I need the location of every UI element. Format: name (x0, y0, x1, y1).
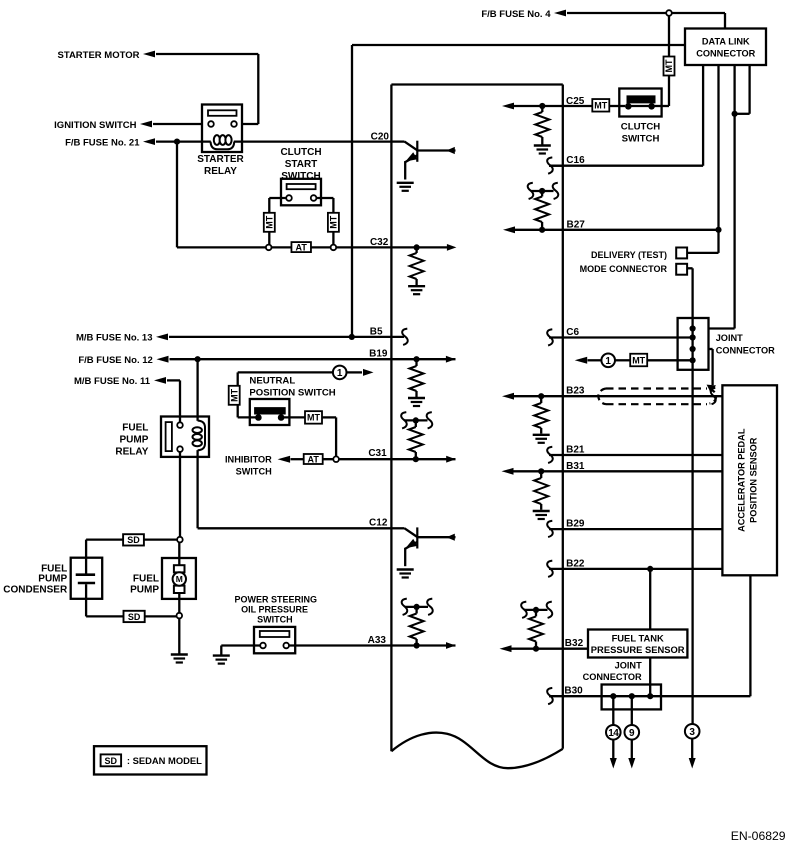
node JC1 pin2 (690, 334, 696, 340)
wire C25 row (513, 105, 625, 107)
wire B29 row (549, 528, 722, 530)
node C25 junction (539, 103, 545, 109)
arrow to IGNITION SWITCH (140, 121, 152, 128)
svg-text:RELAY: RELAY (115, 447, 148, 458)
resistor C31 pull-up (409, 420, 423, 459)
wire DLC pin4 jog (735, 65, 750, 114)
svg-text:C32: C32 (370, 237, 389, 248)
wire B21 row (549, 454, 722, 456)
wire B22 row (549, 568, 722, 570)
resistor B19 pull-down (410, 359, 424, 397)
svg-text:CONNECTOR: CONNECTOR (716, 346, 775, 356)
node DLC pin3-pin4 junction (732, 111, 738, 117)
break B22 (547, 561, 553, 577)
node JC1 pin1 (690, 325, 696, 331)
arrow circled 14 down (610, 740, 617, 769)
svg-text:AT: AT (296, 242, 308, 252)
svg-text:ACCELERATOR PEDAL: ACCELERATOR PEDAL (736, 428, 746, 532)
ground C25 (534, 144, 551, 146)
ground B23 (533, 434, 550, 436)
svg-text:B23: B23 (566, 385, 585, 396)
svg-text:B5: B5 (370, 326, 383, 337)
node inhibitor junction (333, 456, 339, 462)
label JOINT CONNECTOR lower (583, 661, 642, 683)
AT tag inhibitor (304, 454, 323, 464)
svg-text:EN-06829: EN-06829 (731, 829, 786, 843)
node C32 internal (414, 244, 420, 250)
wire C32 internal (391, 246, 447, 248)
MT tag C25 (592, 99, 609, 112)
wire DLC pin2 down to B27 and delivery connector (687, 65, 718, 253)
label CLUTCH SWITCH (621, 121, 661, 144)
wire JC1 down to circled 3 (691, 370, 693, 725)
svg-text:CONNECTOR: CONNECTOR (583, 672, 642, 682)
svg-text:CONNECTOR: CONNECTOR (696, 49, 755, 59)
relay STARTER RELAY (202, 105, 242, 153)
ground PS switch (213, 654, 230, 656)
svg-text:MT: MT (632, 355, 645, 365)
ground fuel pump (171, 653, 188, 655)
rail above C31 with breaks (401, 412, 432, 428)
arrow C25 internal (502, 103, 514, 110)
connector JOINT CONNECTOR upper (678, 318, 709, 370)
svg-text:M/B FUSE No. 13: M/B FUSE No. 13 (76, 333, 153, 344)
node B27 junction on DLC drop (715, 227, 721, 233)
wire ignition switch to relay (153, 123, 202, 125)
wire M/B fuse 11 to fuel pump relay (167, 380, 180, 422)
arrow C32 internal (447, 244, 457, 251)
arrow circled 3 down (689, 739, 696, 769)
break B21 (547, 447, 553, 463)
svg-text:PUMP: PUMP (119, 435, 148, 446)
coil of fuel pump relay (193, 421, 206, 451)
arrow to STARTER MOTOR (143, 51, 155, 58)
node SD branch (177, 537, 183, 543)
wire DLC pin1 to C16 (549, 65, 703, 166)
switch NEUTRAL POSITION SWITCH (250, 399, 290, 425)
svg-text:PUMP: PUMP (130, 584, 159, 595)
SD tag legend (101, 754, 122, 766)
transistor C12 (391, 527, 455, 577)
wire B32 row (510, 648, 588, 650)
svg-text:CONDENSER: CONDENSER (3, 584, 68, 595)
svg-text:JOINT: JOINT (716, 333, 743, 343)
switch CLUTCH START SWITCH (281, 179, 321, 206)
node circled 14 (606, 725, 621, 740)
svg-text:1: 1 (337, 368, 343, 379)
resistor B31 pull-down (534, 471, 548, 510)
label POWER STEERING OIL PRESSURE SWITCH (235, 594, 318, 624)
junction node at x177 (174, 139, 180, 145)
node JC2 pin1 (610, 693, 616, 699)
ECM box outline (391, 85, 562, 769)
wire fuel tank sensor to JC2 (649, 658, 651, 697)
svg-text:MODE CONNECTOR: MODE CONNECTOR (580, 264, 668, 274)
break C6 (547, 329, 553, 345)
node B19 internal (413, 356, 419, 362)
arrow circled 9 down (628, 740, 635, 769)
resistor B27 pull-up (535, 191, 549, 230)
svg-text:PRESSURE SENSOR: PRESSURE SENSOR (591, 644, 685, 655)
node B32 junction (533, 646, 539, 652)
svg-text:CLUTCH: CLUTCH (280, 147, 321, 158)
MT tag clutch switch right (664, 57, 675, 76)
svg-text:SWITCH: SWITCH (257, 615, 293, 625)
node rail B27 (539, 188, 545, 194)
svg-text:NEUTRAL: NEUTRAL (249, 375, 295, 386)
wire DLC left to ECM rail (352, 45, 685, 337)
resistor C32 pull-down (410, 247, 424, 285)
resistor B23 pull-down (534, 396, 548, 433)
wire arrow to circle (588, 359, 602, 361)
node B23 junction (538, 393, 544, 399)
svg-text:DATA LINK: DATA LINK (702, 37, 750, 47)
svg-text:MT: MT (329, 215, 339, 228)
ground B19 (408, 397, 425, 399)
svg-text:AT: AT (308, 454, 320, 464)
wire C31 row (291, 458, 456, 460)
svg-text:: SEDAN MODEL: : SEDAN MODEL (127, 755, 202, 766)
svg-text:SWITCH: SWITCH (281, 171, 320, 182)
SD tag lower (124, 611, 145, 622)
wire neutral switch riser (238, 372, 334, 417)
break B23 at sensor (711, 388, 716, 404)
rail above B32 with breaks (521, 602, 552, 618)
wire delivery square2 to joint connector (687, 268, 693, 318)
AT tag (291, 242, 311, 252)
wire pump node to ground (178, 618, 180, 653)
node AT-left (266, 245, 272, 251)
node AT-right (331, 245, 337, 251)
svg-text:FUEL TANK: FUEL TANK (612, 632, 664, 643)
arrow B32 internal (500, 645, 512, 652)
svg-text:14: 14 (608, 728, 619, 739)
arrow B31 internal (502, 468, 514, 475)
svg-text:PUMP: PUMP (38, 574, 67, 585)
svg-text:FUEL: FUEL (122, 423, 148, 434)
node fuel pump relay tap (195, 356, 201, 362)
arrow to M/B FUSE No. 11 (154, 377, 166, 384)
wire relay coil to C12 (198, 359, 392, 528)
label ACCELERATOR PEDAL POSITION SENSOR (736, 428, 758, 532)
svg-text:F/B FUSE No. 12: F/B FUSE No. 12 (78, 355, 152, 366)
svg-text:MT: MT (594, 101, 607, 111)
ground B31 (533, 510, 550, 512)
wire JC2 pin1 down (612, 696, 614, 725)
svg-text:STARTER: STARTER (197, 154, 244, 165)
label FUEL PUMP RELAY (115, 423, 148, 458)
resistor A33 pull-up (410, 607, 424, 646)
wire AT row to ECM pin C32 (272, 246, 392, 248)
svg-text:C31: C31 (368, 448, 387, 459)
MT tag right leg (328, 213, 339, 232)
MT tag left leg (264, 213, 275, 232)
MT tag circled1 (630, 354, 647, 367)
label JOINT CONNECTOR upper (716, 333, 775, 355)
MT tag neutral switch riser (229, 386, 240, 405)
svg-text:SD: SD (127, 535, 140, 545)
node fuse4 junction (666, 10, 672, 16)
wire clutch start switch right leg with MT (316, 198, 333, 247)
wire relay output down (179, 452, 181, 537)
wire JC2 pin2 down (631, 696, 633, 725)
resistor C25 pull-down (535, 106, 549, 145)
node rail A33 (414, 604, 420, 610)
wire joint connector column (691, 318, 693, 370)
arrow B27 internal (503, 226, 515, 233)
break C16 (547, 157, 553, 173)
break B29 (547, 521, 553, 537)
break B5 (402, 329, 408, 345)
svg-text:SWITCH: SWITCH (622, 133, 660, 144)
svg-text:B19: B19 (369, 349, 388, 360)
arrow shield drain (707, 385, 716, 393)
svg-text:C12: C12 (369, 518, 388, 529)
shield around B23 (598, 389, 716, 405)
svg-text:C20: C20 (371, 131, 390, 142)
node pump ground branch (177, 613, 183, 619)
connector DELIVERY square 1 (676, 248, 687, 259)
svg-text:F/B FUSE No. 4: F/B FUSE No. 4 (481, 9, 551, 20)
svg-text:START: START (285, 159, 318, 170)
label FUEL PUMP CONDENSER (3, 564, 68, 596)
svg-text:SD: SD (128, 612, 141, 622)
svg-text:B21: B21 (566, 444, 585, 455)
wire A33 row (289, 644, 456, 646)
node JC1 pin3 (690, 346, 696, 352)
node JC1 pin4 (690, 357, 696, 363)
svg-text:INHIBITOR: INHIBITOR (225, 454, 272, 464)
label DELIVERY (TEST) MODE CONNECTOR (580, 250, 668, 274)
svg-text:A33: A33 (368, 635, 387, 646)
arrow B23 internal (502, 393, 514, 400)
wire C6 row (549, 336, 693, 338)
wire circle to MT (615, 359, 630, 361)
node JC2 pin3 (647, 693, 653, 699)
arrow B19 internal (446, 356, 456, 363)
wire DLC pin3 down to joint connector (709, 65, 735, 329)
svg-text:M: M (176, 574, 183, 584)
svg-text:POSITION SWITCH: POSITION SWITCH (249, 387, 335, 398)
arrow circled 1 right (575, 357, 588, 364)
motor FUEL PUMP (162, 542, 196, 613)
node circled 1 left (333, 366, 347, 380)
label STARTER RELAY (197, 154, 244, 177)
connector DELIVERY square 2 (676, 264, 687, 275)
node circled 1 right (601, 354, 615, 368)
svg-text:POSITION SENSOR: POSITION SENSOR (748, 437, 758, 523)
switch CLUTCH SWITCH (619, 89, 661, 117)
label CLUTCH START SWITCH (280, 147, 321, 182)
svg-text:POWER STEERING: POWER STEERING (235, 594, 318, 604)
break B30 (547, 688, 553, 704)
legend SEDAN MODEL box (94, 746, 207, 774)
wire C16 stub (549, 165, 563, 167)
svg-text:MT: MT (265, 215, 275, 228)
svg-text:DELIVERY (TEST): DELIVERY (TEST) (591, 250, 667, 260)
wire JC1 pin3 to shield drain (709, 349, 713, 385)
arrow to M/B FUSE No. 13 (156, 334, 168, 341)
wire fuse4 to data link connector (567, 13, 725, 29)
svg-text:MT: MT (664, 59, 674, 72)
node B27 resistor junction (539, 227, 545, 233)
wire B5 row (169, 336, 404, 338)
ground C32 (408, 285, 425, 287)
sensor ACCELERATOR PEDAL POSITION SENSOR (722, 385, 777, 575)
svg-text:SWITCH: SWITCH (236, 466, 273, 476)
wire PS switch to ground (221, 646, 260, 656)
wire B23 row (513, 395, 722, 397)
svg-text:RELAY: RELAY (204, 166, 237, 177)
SD tag upper (123, 534, 144, 545)
svg-text:1: 1 (605, 356, 611, 367)
node rail B32 (533, 607, 539, 613)
arrow to F/B FUSE No. 4 (554, 10, 566, 17)
node A33 internal (414, 642, 420, 648)
wire junction down to AT row (177, 142, 266, 248)
node circled 9 (625, 725, 640, 740)
relay FUEL PUMP RELAY (161, 417, 209, 457)
wire condenser bottom to SD2 (86, 615, 123, 617)
wire B30 row (549, 575, 750, 696)
node B22 to fuel tank sensor (647, 566, 653, 572)
node B31 junction (538, 468, 544, 474)
rail above A33 with breaks (402, 599, 433, 615)
wire SD branch left (86, 540, 177, 558)
node B5 junction with ECM rail (349, 334, 355, 340)
svg-text:STARTER MOTOR: STARTER MOTOR (58, 50, 140, 61)
node JC2 pin2 (629, 693, 635, 699)
svg-text:FUEL: FUEL (133, 574, 159, 585)
connector JOINT CONNECTOR lower (602, 685, 661, 710)
svg-text:M/B FUSE No. 11: M/B FUSE No. 11 (74, 376, 151, 387)
arrow C31 internal (446, 456, 456, 463)
rail above B27 with breaks (528, 183, 559, 199)
wire B22 down to fuel tank pressure sensor (649, 569, 651, 630)
svg-text:SD: SD (105, 756, 118, 766)
label FUEL TANK PRESSURE SENSOR (591, 632, 685, 655)
capacitor FUEL PUMP CONDENSER (71, 558, 103, 617)
svg-text:C6: C6 (566, 327, 579, 338)
svg-text:F/B FUSE No. 21: F/B FUSE No. 21 (65, 137, 140, 148)
wire B31 row (513, 470, 722, 472)
wire clutch start switch left leg with MT (269, 198, 286, 247)
arrow to F/B FUSE No. 21 (143, 138, 155, 145)
wire MT to JC1 (647, 359, 692, 361)
resistor B32 pull-up (529, 610, 543, 649)
wire B27 row (514, 229, 719, 231)
arrow circled 1 left (346, 369, 373, 376)
sensor FUEL TANK PRESSURE SENSOR (588, 630, 687, 658)
svg-text:C16: C16 (566, 155, 585, 166)
svg-text:B30: B30 (564, 686, 583, 697)
svg-text:CLUTCH: CLUTCH (621, 121, 661, 132)
arrow to F/B FUSE No. 12 (157, 356, 169, 363)
svg-text:MT: MT (307, 413, 320, 423)
label FUEL PUMP (130, 574, 159, 596)
svg-text:9: 9 (629, 728, 635, 739)
connector DATA LINK CONNECTOR (685, 29, 766, 66)
wire SD2 to pump node (145, 615, 177, 617)
wire B19 row (170, 358, 456, 360)
wire F/B fuse 21 to ECM pin C20 (156, 140, 391, 142)
svg-text:MT: MT (229, 388, 239, 401)
switch POWER STEERING OIL PRESSURE SWITCH (254, 627, 295, 653)
wire node down through MT to clutch switch (654, 16, 669, 106)
svg-text:JOINT: JOINT (615, 661, 642, 671)
coil of starter relay (211, 135, 235, 149)
label DATA LINK CONNECTOR (696, 37, 755, 59)
wire starter motor (156, 54, 258, 124)
node circled 3 (685, 724, 700, 739)
svg-text:IGNITION SWITCH: IGNITION SWITCH (54, 120, 136, 131)
svg-text:OIL PRESSURE: OIL PRESSURE (241, 605, 308, 615)
wire NPS to MT to inhibitor node (284, 417, 336, 456)
svg-text:3: 3 (689, 727, 695, 738)
arrow to INHIBITOR SWITCH (278, 456, 291, 463)
node C31 internal (413, 456, 419, 462)
arrow A33 internal (446, 642, 456, 649)
transistor C20 (391, 141, 455, 191)
node rail C31 (413, 417, 419, 423)
MT tag NPS output (305, 411, 322, 424)
label NEUTRAL POSITION SWITCH (249, 375, 335, 398)
label INHIBITOR SWITCH (225, 454, 272, 476)
